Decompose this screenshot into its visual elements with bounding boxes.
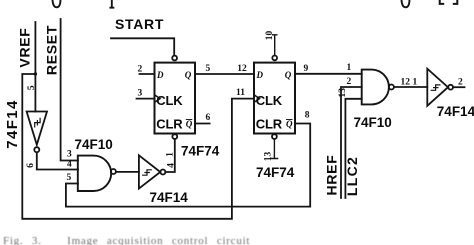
wire FF1 CLR to inverter U3 output bbox=[165, 139, 175, 172]
svg-text:12: 12 bbox=[237, 64, 247, 74]
svg-text:6: 6 bbox=[206, 113, 211, 123]
FF2 clock wedge bbox=[254, 95, 260, 103]
wire FF1 Qbar output stub (pin 6) bbox=[195, 123, 210, 125]
FF1 clock wedge bbox=[155, 95, 161, 103]
svg-text:CLR: CLR bbox=[256, 116, 283, 131]
svg-text:1: 1 bbox=[347, 63, 352, 73]
U6 output bubble bbox=[34, 147, 39, 152]
cropped text fragment g (top-right) bbox=[402, 0, 410, 7]
U6 hysteresis symbol bbox=[35, 118, 40, 127]
cropped citation bracket [ bbox=[440, 0, 444, 4]
svg-text:Q: Q bbox=[285, 70, 292, 80]
svg-text:Q: Q bbox=[286, 119, 293, 129]
svg-text:12: 12 bbox=[401, 78, 411, 88]
inverter U6 74F14 (down pointing) bbox=[27, 112, 47, 145]
U4 output bubble bbox=[111, 169, 116, 174]
svg-text:74F14: 74F14 bbox=[150, 190, 189, 205]
svg-text:LLC2: LLC2 bbox=[344, 156, 360, 196]
wire FF1 CLK input stub (pin 3) bbox=[137, 98, 155, 100]
cropped text fragment p stem bbox=[110, 0, 113, 8]
svg-text:11: 11 bbox=[236, 88, 245, 98]
svg-text:4: 4 bbox=[67, 160, 72, 170]
wire LLC2 to U5 pin 13 bbox=[345, 99, 361, 198]
svg-text:74F74: 74F74 bbox=[181, 144, 220, 159]
svg-text:D: D bbox=[156, 70, 164, 80]
svg-text:CLR: CLR bbox=[156, 116, 183, 131]
svg-text:74F74: 74F74 bbox=[256, 165, 295, 180]
svg-text:2: 2 bbox=[138, 65, 143, 75]
svg-text:74F14: 74F14 bbox=[4, 99, 21, 149]
svg-text:Q: Q bbox=[185, 70, 192, 80]
node VREF junction bbox=[34, 72, 37, 75]
wire RESET vertical to NAND U4 pin 3 bbox=[61, 19, 78, 161]
svg-text:START: START bbox=[115, 16, 164, 32]
U3 output bubble bbox=[160, 170, 165, 175]
wire VREF branch to FF2 CLK (long feedback) bbox=[22, 74, 254, 219]
svg-text:74F10: 74F10 bbox=[75, 137, 113, 152]
svg-text:6: 6 bbox=[26, 163, 36, 168]
wire FF1 Q to FF2 D bbox=[195, 73, 254, 75]
svg-text:9: 9 bbox=[304, 64, 309, 74]
wire HREF to U5 pin 2 bbox=[341, 87, 362, 198]
caption Fig. 3 bbox=[3, 235, 473, 245]
U7 output bubble bbox=[448, 85, 453, 90]
NAND gate U4 74F10 body bbox=[78, 156, 111, 191]
svg-text:4: 4 bbox=[167, 163, 177, 168]
FF1 clear bubble bbox=[172, 134, 177, 139]
wire FF2 preset tie-high (pin 10) bbox=[273, 35, 277, 56]
svg-text:3: 3 bbox=[67, 149, 72, 159]
svg-text:5: 5 bbox=[206, 64, 211, 74]
cropped text fragment g (top-left) bbox=[53, 0, 61, 7]
svg-text:2: 2 bbox=[347, 77, 352, 87]
svg-text:2: 2 bbox=[458, 78, 463, 88]
svg-text:D: D bbox=[256, 70, 264, 80]
svg-text:CLK: CLK bbox=[156, 93, 183, 108]
wire FF1 D input stub (pin 2) bbox=[140, 73, 155, 75]
wire VREF vertical with underline bbox=[34, 22, 36, 112]
svg-text:RESET: RESET bbox=[44, 25, 60, 75]
svg-text:5: 5 bbox=[67, 173, 72, 183]
svg-text:HREF: HREF bbox=[324, 155, 340, 196]
wire U6 output to NAND U4 pin 4 bbox=[37, 152, 78, 169]
inverter U7 74F14 bbox=[427, 69, 448, 106]
wire FF2 Q to NAND U5 input 1 bbox=[295, 73, 362, 75]
svg-text:13: 13 bbox=[263, 152, 273, 162]
inverter U3 74F14 bbox=[139, 155, 160, 188]
wire U7 output stub (pin 2) bbox=[453, 86, 465, 88]
FF2 preset bubble bbox=[272, 56, 277, 61]
FF1 preset bubble bbox=[172, 56, 177, 61]
U7 hysteresis symbol bbox=[431, 85, 440, 90]
flip-flop U1 74F74 box bbox=[155, 63, 196, 134]
wire U5 output to inverter U7 bbox=[394, 86, 427, 88]
FF2 clear bubble bbox=[272, 134, 277, 139]
wire START underline/feed bbox=[111, 38, 174, 55]
svg-text:13: 13 bbox=[338, 88, 348, 98]
svg-text:CLK: CLK bbox=[256, 93, 283, 108]
svg-text:8: 8 bbox=[305, 111, 310, 121]
svg-text:Q: Q bbox=[186, 119, 193, 129]
svg-text:10: 10 bbox=[265, 31, 275, 41]
svg-text:74F10: 74F10 bbox=[354, 115, 392, 130]
svg-text:1: 1 bbox=[166, 152, 176, 157]
cropped citation bracket ] bbox=[454, 0, 458, 4]
svg-text:3: 3 bbox=[138, 89, 143, 99]
svg-text:74F14: 74F14 bbox=[437, 104, 474, 119]
NAND gate U5 74F10 body bbox=[362, 70, 389, 105]
svg-text:1: 1 bbox=[413, 78, 418, 88]
U5 output bubble bbox=[389, 85, 394, 90]
svg-text:VREF: VREF bbox=[17, 27, 33, 67]
wire U4 pin5 input feedback from FF2 Qbar bbox=[66, 124, 310, 207]
svg-text:5: 5 bbox=[27, 85, 37, 90]
wire U4 output to inverter U3 bbox=[116, 171, 139, 173]
wire FF2 clear tie (pin 13) bbox=[271, 139, 277, 158]
flip-flop U2 74F74 box bbox=[254, 63, 295, 134]
U3 hysteresis symbol bbox=[143, 170, 152, 175]
